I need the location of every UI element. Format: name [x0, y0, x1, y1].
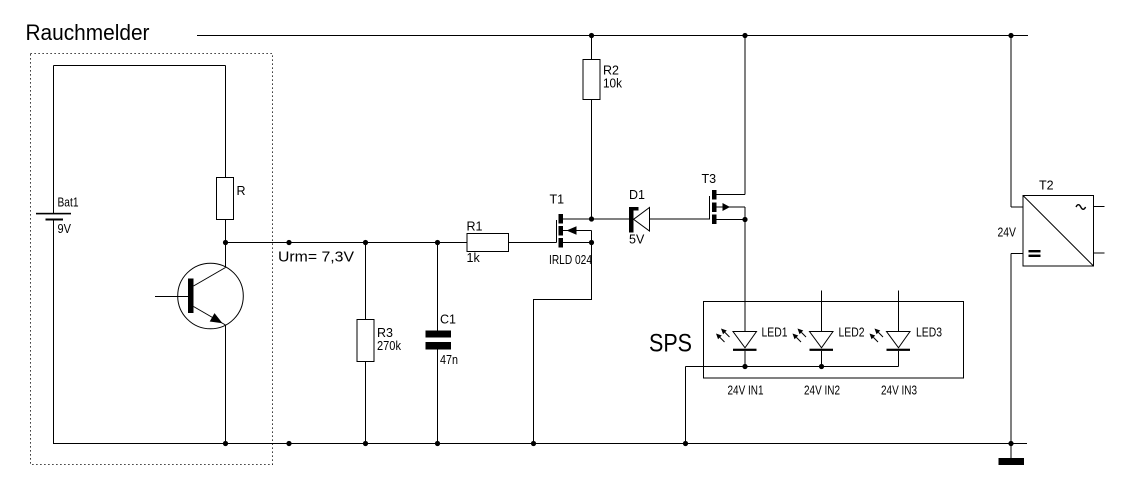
wire T2 primary bottom — [1011, 254, 1023, 445]
junction bottom T2 — [1008, 441, 1013, 446]
svg-text:9V: 9V — [58, 222, 72, 236]
junction bus LED1 — [742, 364, 747, 369]
svg-text:24V IN1: 24V IN1 — [728, 384, 764, 398]
wire T3 drain up — [744, 36, 746, 195]
svg-text:R: R — [237, 184, 246, 198]
svg-text:5V: 5V — [629, 233, 645, 247]
svg-text:SPS: SPS — [649, 330, 692, 358]
svg-text:C1: C1 — [440, 313, 456, 327]
junction bottom T1 source — [531, 441, 536, 446]
junction bottom C1 — [435, 441, 440, 446]
transistor T1 — [557, 214, 592, 248]
svg-text:R2: R2 — [603, 64, 619, 78]
svg-text:LED3: LED3 — [916, 326, 942, 340]
wire bottom ground rail — [54, 443, 1028, 445]
junction top rail R2 — [589, 33, 594, 38]
svg-text:24V IN2: 24V IN2 — [804, 384, 840, 398]
svg-text:1k: 1k — [467, 251, 481, 265]
transistor Q1 — [155, 263, 243, 329]
LED LED3 — [870, 291, 911, 367]
svg-text:Urm= 7,3V: Urm= 7,3V — [278, 249, 354, 266]
SPS enclosure box — [704, 302, 964, 379]
junction bottom SPS return — [683, 441, 688, 446]
wire net Urm middle rail — [226, 242, 557, 244]
svg-text:T1: T1 — [550, 193, 565, 207]
svg-text:D1: D1 — [629, 188, 645, 202]
LED LED2 — [793, 291, 834, 367]
LED LED1 — [716, 329, 757, 367]
wire T3 source to LED1 — [744, 220, 746, 332]
wire inner top rail — [54, 65, 226, 67]
svg-text:Rauchmelder: Rauchmelder — [26, 20, 150, 45]
wire bus down to rail — [685, 367, 687, 445]
svg-text:Bat1: Bat1 — [58, 196, 79, 210]
dashed enclosure Rauchmelder box — [31, 54, 273, 465]
svg-text:LED1: LED1 — [762, 326, 788, 340]
junction T1 drain node — [589, 216, 594, 221]
wire T1 source to rail — [534, 243, 592, 445]
zener diode D1 — [592, 207, 710, 233]
junction middle rail R3 — [363, 240, 368, 245]
junction T1 source node — [589, 240, 594, 245]
junction collector node — [223, 240, 228, 245]
wire emitter — [225, 325, 227, 444]
junction bus LED2 — [819, 364, 824, 369]
svg-text:24V IN3: 24V IN3 — [881, 384, 917, 398]
svg-text:270k: 270k — [377, 339, 402, 353]
ground — [999, 444, 1025, 466]
junction bottom a — [286, 441, 291, 446]
junction T3 source node — [742, 217, 747, 222]
svg-text:T3: T3 — [702, 172, 717, 186]
junction middle rail a — [286, 240, 291, 245]
capacitor C1 — [426, 243, 452, 445]
junction middle rail C1 — [435, 240, 440, 245]
junction emitter-rail — [223, 441, 228, 446]
svg-text:T2: T2 — [1039, 179, 1054, 193]
junction top rail T2 — [1008, 33, 1013, 38]
resistor R3 — [357, 243, 374, 445]
svg-text:R1: R1 — [467, 220, 483, 234]
resistor R1 — [467, 234, 509, 252]
transistor T3 — [710, 190, 746, 224]
svg-text:R3: R3 — [377, 326, 393, 340]
svg-text:IRLD 024: IRLD 024 — [549, 253, 592, 267]
svg-text:24V: 24V — [998, 226, 1017, 240]
svg-text:47n: 47n — [440, 353, 458, 367]
wire top 24V rail — [197, 35, 1028, 37]
wire collector — [225, 243, 227, 268]
wire LED cathode bus — [686, 366, 899, 368]
transformer T2 — [1023, 196, 1105, 267]
svg-text:LED2: LED2 — [839, 326, 865, 340]
svg-text:10k: 10k — [603, 77, 623, 91]
junction bottom R3 — [363, 441, 368, 446]
wire battery bottom lead — [53, 221, 55, 445]
wire T2 primary top — [1011, 36, 1023, 208]
resistor R — [217, 66, 234, 243]
resistor R2 — [583, 36, 600, 220]
wire battery top lead — [53, 66, 55, 214]
battery Bat1 — [36, 213, 71, 221]
junction top rail T3 — [742, 33, 747, 38]
